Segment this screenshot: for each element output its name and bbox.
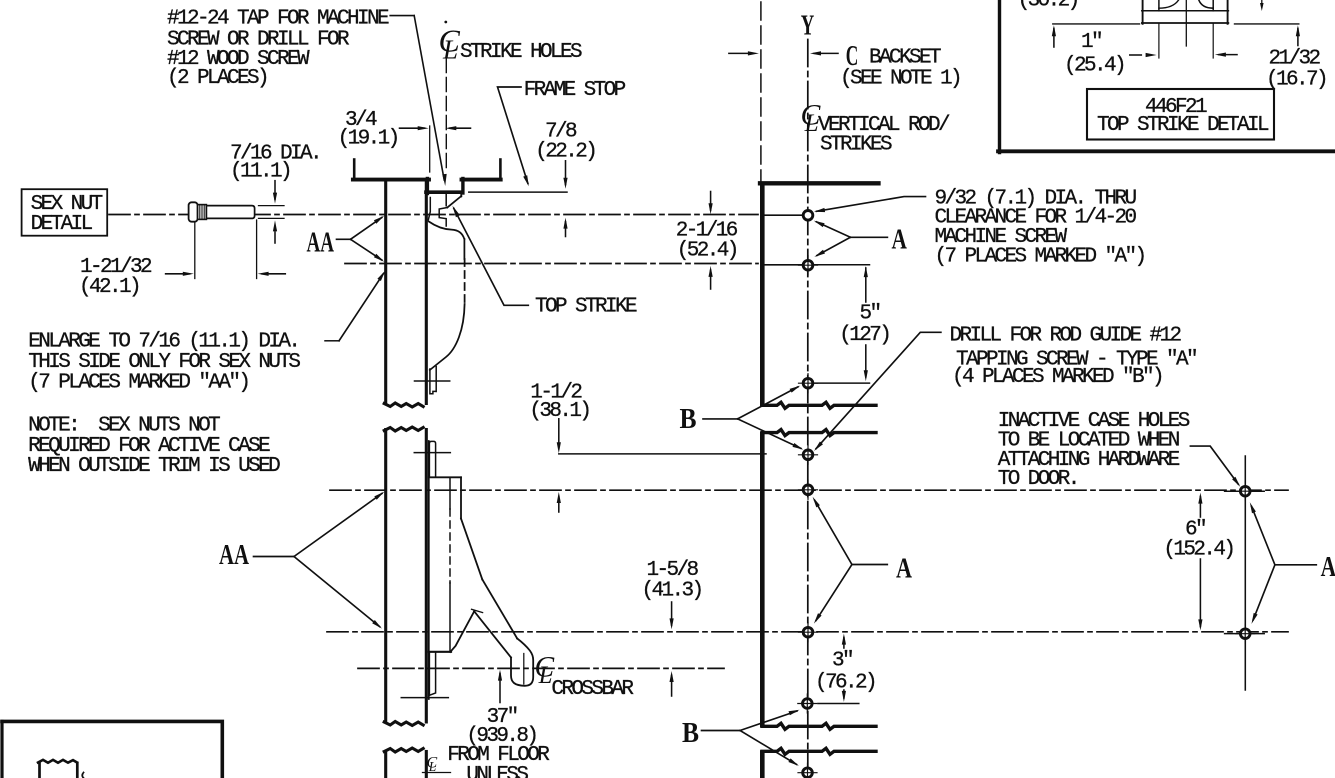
dimension 5in arrows — [865, 268, 867, 302]
top strike lip step — [460, 193, 462, 197]
arm joint notch — [472, 609, 483, 612]
svg-text:AA: AA — [307, 227, 335, 259]
svg-text:(7 PLACES MARKED "A"): (7 PLACES MARKED "A") — [935, 245, 1145, 268]
small arrow at top right of part — [1261, 0, 1263, 7]
svg-text:(152.4): (152.4) — [1163, 539, 1233, 562]
frame step up from recess — [461, 179, 464, 194]
strike recess soffit — [426, 190, 463, 194]
dimension 1-1/2 arrows — [558, 419, 560, 449]
break line with zigzag (lower pair bottom) — [762, 748, 876, 754]
wire - backset extension line at door face — [760, 2, 762, 181]
svg-text:#12-24 TAP FOR MACHINE: #12-24 TAP FOR MACHINE — [167, 7, 389, 30]
wire - vertical rod centerline (dash-dot) — [807, 40, 809, 778]
bottom detail box border — [2, 721, 222, 778]
door break jagged top (bottom section) — [384, 748, 423, 752]
svg-text:(SEE NOTE 1): (SEE NOTE 1) — [840, 67, 960, 90]
svg-text:(127): (127) — [839, 324, 889, 347]
inactive case hole upper — [1240, 486, 1250, 496]
leader from #12-24 note — [390, 15, 414, 17]
top strike part rounded notches — [1159, 0, 1179, 8]
SEX NUT DETAIL box — [22, 189, 108, 236]
tick through door at rod top — [414, 452, 450, 454]
svg-text:BACKSET: BACKSET — [869, 46, 941, 69]
svg-text:Y: Y — [801, 10, 815, 42]
dimension 6in arrows — [1199, 497, 1201, 518]
svg-text:A: A — [892, 224, 907, 256]
door edge right (plan view, upper section) — [425, 181, 428, 404]
svg-text:TO DOOR.: TO DOOR. — [998, 468, 1078, 491]
sex nut bolt head — [189, 202, 198, 221]
hole A1 (9/32 thru) — [803, 211, 813, 221]
extension line through hole B7 — [818, 703, 859, 705]
detail dim line left — [1053, 23, 1140, 25]
frame header right tick (plan view) — [499, 160, 502, 181]
top strike keeper Z-profile — [439, 208, 447, 227]
tick through far hole lower — [1225, 633, 1265, 635]
svg-text:DRILL FOR ROD GUIDE #12: DRILL FOR ROD GUIDE #12 — [950, 324, 1182, 347]
centerline symbol - strike holes — [439, 23, 461, 65]
svg-text:(11.1): (11.1) — [230, 161, 290, 184]
hole A5 — [803, 485, 813, 495]
centerline symbol - vertical rod — [801, 99, 822, 138]
case right edge upper — [460, 477, 462, 518]
svg-text:TOP STRIKE: TOP STRIKE — [535, 296, 637, 319]
sex nut shaft — [206, 206, 254, 219]
wire - centerline CL4 (horizontal dash-dot) — [327, 631, 1288, 633]
strike holes centerline (vertical dashes) — [445, 59, 447, 173]
tick through door edge at rod — [415, 380, 450, 382]
crossbar arm lower edge — [474, 611, 511, 657]
rod guard right line (hidden dashes) — [464, 259, 466, 304]
wire - centerline CL1 top strike holes (horizontal dash-dot) — [109, 214, 758, 216]
leader A right — [1275, 564, 1316, 566]
door break jagged bottom (mid section) — [384, 722, 423, 726]
wire - crossbar centerline CL5 (horizontal dash-dot) — [358, 667, 724, 669]
svg-text:STRIKE HOLES: STRIKE HOLES — [460, 41, 582, 64]
detail box left border — [998, 0, 1001, 153]
door edge left (plan view, mid section) — [384, 430, 387, 723]
case right slant — [461, 519, 482, 580]
top strike part section lines — [1142, 10, 1229, 12]
part extension lines down — [1158, 24, 1160, 58]
frame step down to strike recess — [426, 179, 429, 194]
bolt shaft extension lines — [259, 205, 285, 207]
sex nut ribbed collar — [198, 205, 207, 220]
tiny centerline sliver in bottom box — [82, 773, 83, 778]
tick at bottom door centerline — [423, 772, 451, 774]
rod tab top (case) — [429, 441, 435, 477]
svg-text:L: L — [804, 110, 819, 137]
dimension C backset arrows — [729, 52, 753, 54]
centerline symbol - door edge bottom — [427, 755, 438, 775]
svg-text:(19.1): (19.1) — [338, 128, 398, 151]
dimension 3in arrows — [843, 638, 845, 649]
label box 446F21 — [1087, 89, 1274, 140]
svg-text:(4 PLACES MARKED "B"): (4 PLACES MARKED "B") — [952, 366, 1162, 389]
svg-text:TOP STRIKE DETAIL: TOP STRIKE DETAIL — [1097, 114, 1269, 137]
case mounting plate edge — [428, 441, 430, 699]
crossbar arm upper edge — [482, 580, 517, 639]
dimension 3/4 lines — [400, 127, 425, 129]
break line with zigzag (upper pair bottom) — [762, 430, 876, 436]
door edge left (plan view, upper section) — [384, 181, 387, 404]
hole B3 (rod guide) — [803, 378, 813, 388]
crossbar pill vertical centerline tick — [523, 654, 525, 685]
door edge right (plan view, bottom section) — [425, 752, 428, 778]
dimension 7/16 arrows — [274, 181, 276, 199]
frame header left tick (plan view) — [353, 160, 356, 181]
svg-text:A: A — [896, 552, 912, 584]
svg-text:1": 1" — [1081, 31, 1101, 54]
break line with zigzag (lower pair top) — [762, 723, 876, 729]
svg-text:CROSSBAR: CROSSBAR — [551, 678, 634, 701]
wire - CL1 solid segment into hole A1 — [764, 214, 802, 216]
frame soffit left (plan view) — [353, 178, 429, 182]
dimension 1-5/8 arrows — [671, 602, 673, 625]
door edge (elevation) segment 2 — [760, 434, 765, 725]
svg-text:WHEN OUTSIDE TRIM IS USED: WHEN OUTSIDE TRIM IS USED — [28, 455, 280, 478]
door edge left (plan view, bottom section) — [384, 752, 387, 778]
svg-text:FRAME STOP: FRAME STOP — [524, 79, 626, 102]
svg-text:B: B — [680, 403, 697, 435]
svg-text:(42.1): (42.1) — [79, 276, 139, 299]
hole B7 (rod guide) — [803, 699, 813, 709]
dimension 1-21/32 lines — [194, 222, 196, 279]
tick through door at rod bottom — [401, 697, 448, 699]
hole A6 — [803, 627, 813, 637]
dimension 2-1/16 arrows — [710, 192, 712, 211]
dim 25.4 arrow — [1130, 54, 1142, 56]
frame soffit (elevation) — [760, 181, 879, 185]
door edge (elevation) segment 1 — [760, 186, 765, 405]
rod tab (plan view) — [430, 367, 436, 394]
door piece in bottom box — [38, 763, 41, 778]
detail box bottom border — [998, 149, 1335, 153]
leader A upper — [850, 236, 887, 238]
svg-text:(2 PLACES): (2 PLACES) — [167, 67, 267, 90]
centerline symbol - crossbar — [535, 652, 555, 689]
leader 9/32 to hole A1 — [817, 197, 926, 212]
wire - centerline CL2 (horizontal dash-dot) — [345, 263, 758, 265]
svg-text:(25.4): (25.4) — [1064, 54, 1124, 77]
wire - extension line right of hole A2 for 5in dim — [814, 264, 869, 266]
crossbar end pill — [511, 639, 533, 686]
wire - CL2 solid segment into hole A2 — [764, 264, 802, 266]
leader A middle — [852, 564, 887, 566]
leader FRAME STOP — [498, 87, 528, 184]
dimension 37in leader — [499, 674, 501, 703]
leader TOP STRIKE — [454, 208, 529, 305]
svg-text:L: L — [538, 662, 553, 689]
tick through far hole upper — [1225, 490, 1265, 492]
svg-text:(30.2): (30.2) — [1018, 0, 1078, 13]
svg-text:21/32: 21/32 — [1269, 47, 1321, 70]
leader AA upper — [337, 238, 351, 240]
extension line through hole B4 level — [559, 453, 766, 455]
leader DRILL to hole B4 — [816, 332, 941, 448]
case lower-left slant — [450, 611, 474, 652]
wire - centerline CL3 (horizontal dash-dot) — [330, 489, 1288, 491]
leader B upper — [703, 418, 738, 420]
top strike CL stub below soffit — [445, 194, 447, 206]
svg-text:B: B — [682, 717, 699, 749]
leader from ENLARGE note — [325, 340, 339, 342]
case bottom edge — [429, 651, 451, 653]
extension line through hole B3 — [814, 382, 869, 384]
case top edge — [429, 476, 461, 478]
svg-text:(52.4): (52.4) — [677, 239, 737, 262]
rod guard right line (solid) — [463, 239, 465, 259]
top strike bottom curve to guard — [429, 222, 465, 240]
svg-text:(41.3): (41.3) — [642, 579, 702, 602]
door break jagged bottom (upper section) — [384, 403, 423, 407]
door edge (elevation) segment 3 — [760, 753, 765, 778]
vertical line through inactive holes — [1244, 456, 1246, 690]
svg-text:UNLESS: UNLESS — [466, 764, 528, 778]
door break jagged top (mid section) — [384, 427, 423, 431]
inactive case hole lower — [1240, 629, 1250, 639]
frame stop face extension line — [469, 191, 567, 193]
svg-text:A: A — [1321, 551, 1335, 583]
leader AA lower — [254, 556, 295, 558]
svg-text:L: L — [428, 759, 437, 774]
top strike lip slant — [447, 196, 461, 208]
dimension 7/8 arrows — [565, 161, 567, 185]
case front line (solid/hidden/solid) — [449, 478, 451, 510]
rod guard lower curve — [430, 304, 465, 370]
svg-text:5": 5" — [860, 302, 880, 325]
rod tab bottom (case) — [429, 652, 435, 695]
svg-text:DETAIL: DETAIL — [31, 213, 93, 236]
svg-text:AA: AA — [219, 539, 249, 571]
top strike inner left rib — [428, 198, 430, 221]
frame soffit right (plan view) — [462, 178, 501, 182]
hole B4 (rod guide) — [803, 450, 813, 460]
hole A2 — [803, 260, 813, 270]
svg-text:STRIKES: STRIKES — [820, 133, 892, 156]
svg-text:(76.2): (76.2) — [815, 671, 875, 694]
dot above strike centerline symbol — [444, 21, 447, 24]
hole B8 (rod guide) — [803, 768, 813, 778]
break line with zigzag (upper pair top) — [762, 402, 876, 408]
svg-text:L: L — [442, 35, 458, 65]
leader B lower — [702, 730, 741, 732]
part centerline vertical — [1185, 0, 1187, 46]
leader INACTIVE to far hole — [1190, 446, 1238, 484]
svg-text:(7 PLACES MARKED "AA"): (7 PLACES MARKED "AA") — [28, 371, 248, 394]
dim 16.7 arrow — [1215, 53, 1226, 57]
svg-text:3": 3" — [832, 650, 852, 673]
door edge right (plan view, mid section) — [425, 430, 428, 723]
detail dim line right — [1235, 23, 1299, 25]
svg-text:(16.7): (16.7) — [1266, 68, 1326, 91]
